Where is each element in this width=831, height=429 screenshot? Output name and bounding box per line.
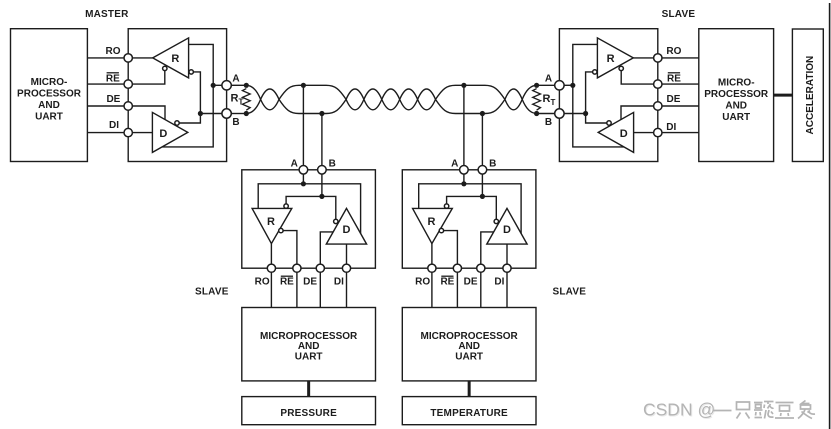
pin A (slave) [555,81,564,90]
wire D output to A (master) [162,85,213,147]
watermark glyph zhi [737,402,750,419]
svg-text:R: R [267,216,275,228]
svg-text:MICROPROCESSOR: MICROPROCESSOR [260,331,358,342]
svg-text:T: T [551,98,556,107]
slave microprocessor label [704,78,769,124]
wire micro to sensor (thick) (slave 1) [307,381,310,397]
bubble R inverting input (slave) [593,70,597,74]
pin RO (slave 2) [428,264,436,272]
node B junction (master) [198,111,203,116]
pin DE (slave 2) [477,264,485,272]
wire DE to D enable (slave 1) [320,232,333,268]
op-amp R receiver (slave 1) [252,208,292,243]
wire stub B (slave 2) [481,114,483,166]
transistor-symbol D (master driver) [152,112,187,152]
wire RO to microprocessor (slave 1) [270,268,272,307]
wire DE to D enable (master) [128,106,165,120]
microprocessor label (slave 1) [260,331,358,363]
node stub A tap (slave 1) [301,83,306,88]
wire DI to microprocessor (slave 1) [346,268,348,307]
svg-text:SLAVE: SLAVE [552,286,586,297]
svg-text:A: A [451,159,458,170]
wire A to pin (master) [213,84,226,86]
svg-text:D: D [159,128,167,140]
node A junction (slave 2) [461,181,466,186]
wire A to D output (slave 1) [303,184,360,234]
wire R input A (master) [189,44,214,85]
node B junction (slave) [583,111,588,116]
bubble D inverting output (slave) [607,121,611,125]
wire master RE [87,83,128,85]
svg-text:R: R [543,93,551,105]
pin B (master) [222,109,231,118]
pin RO (master) [124,54,132,62]
wire micro to acceleration (thick) [774,94,793,97]
microprocessor box (slave 1) [242,308,376,381]
watermark glyph wan [754,401,774,419]
wire B to D inverting output (slave 2) [482,196,496,219]
bubble R inverting input (slave 1) [284,204,288,208]
watermark glyph dou [775,403,794,419]
wire stub A (slave 2) [463,85,465,165]
svg-text:B: B [329,159,336,170]
wire RO to R apex [128,57,153,59]
wire R input A (slave) [573,44,598,85]
wire R output to RO (slave 1) [270,244,272,269]
svg-text:DI: DI [109,120,119,131]
bubble R enable (master) [163,66,167,70]
master microprocessor label [17,77,82,123]
wire DE to D enable (slave) [621,106,658,120]
wire A to R input (slave 2) [419,184,464,209]
slave transceiver box U2 [559,29,657,162]
resistor RT (left) [242,89,250,111]
wire DI to D input (slave) [634,132,658,134]
wire R inverting input to B (slave) [586,72,593,114]
node RT bottom (left) [244,111,249,116]
pin DI (slave 1) [342,264,350,272]
wire pin B to RT (left) [231,113,246,115]
svg-text:SLAVE: SLAVE [195,286,229,297]
bubble R inverting input (master) [189,70,193,74]
svg-text:DI: DI [494,277,504,288]
svg-text:A: A [232,73,239,84]
pin DE (master) [124,102,132,110]
svg-text:PRESSURE: PRESSURE [280,408,337,419]
pin RE (slave 2) [453,264,461,272]
wire A drop (slave 2) [463,174,465,184]
svg-text:UART: UART [35,111,63,122]
svg-text:R: R [171,53,179,65]
svg-text:MICRO-: MICRO- [718,78,755,89]
svg-text:R: R [428,216,436,228]
wire slave RO [658,57,699,59]
wire twisted pair conductor 2 [246,89,536,114]
label RE (slave 1) [280,276,294,288]
wire RE to R enable (master) [128,71,165,85]
pin DE (slave) [654,102,662,110]
svg-text:SLAVE: SLAVE [662,9,696,20]
svg-text:D: D [503,224,511,236]
watermark glyph yi [713,410,732,412]
wire pin A to RT (left) [231,84,246,86]
wire RT to pin B (right) [537,113,560,115]
wire B drop (slave 1) [321,174,323,196]
wire B to R inverting (slave 1) [286,196,322,204]
svg-text:RE: RE [667,74,681,85]
node stub B tap (slave 2) [480,111,485,116]
wire RO to microprocessor (slave 2) [431,268,433,307]
pin A (master) [222,81,231,90]
node A junction (slave 1) [301,181,306,186]
wire slave DI [658,132,699,134]
node stub A tap (slave 2) [461,83,466,88]
svg-text:MICRO-: MICRO- [31,77,68,88]
label RT (left) [231,92,244,106]
svg-text:TEMPERATURE: TEMPERATURE [430,408,508,419]
label slave RE [667,73,681,85]
svg-text:B: B [489,159,496,170]
node B junction (slave 2) [480,194,485,199]
pin A (slave 2) [460,166,469,175]
wire DE to microprocessor (slave 1) [319,268,321,307]
wire RE to R enable (slave 1) [283,231,297,269]
watermark CSDN text [643,400,716,421]
svg-text:A: A [291,159,298,170]
svg-text:RE: RE [106,74,120,85]
wire DI to D input (slave 2) [506,244,508,268]
microprocessor label (slave 2) [421,331,519,363]
wire RE to microprocessor (slave 2) [456,268,458,307]
bubble R enable (slave 2) [439,228,443,232]
wire A to pin (slave) [559,84,572,86]
wire RE to R enable (slave) [621,71,658,85]
svg-text:A: A [545,73,552,84]
pin RE (master) [124,80,132,88]
slave microprocessor box [699,29,774,162]
svg-text:RO: RO [106,46,121,57]
svg-text:RO: RO [255,277,270,288]
svg-text:DE: DE [106,94,120,105]
svg-text:AND: AND [458,341,480,352]
node RT top (left) [244,83,249,88]
screen right border [829,3,831,429]
bubble D inverting output (master) [175,121,179,125]
sensor box PRESSURE [242,397,376,425]
svg-text:ACCELERATION: ACCELERATION [805,56,816,135]
svg-text:MICROPROCESSOR: MICROPROCESSOR [421,331,519,342]
wire stub B (slave 1) [321,114,323,166]
wire DI to D input (slave 1) [346,244,348,268]
master microprocessor box [11,29,88,162]
pin B (slave) [555,109,564,118]
pin RO (slave) [654,54,662,62]
wire B to D inverting output (slave 1) [322,196,336,219]
wire A drop (slave 1) [302,174,304,184]
wire slave RE [658,83,699,85]
node RT top (right) [534,83,539,88]
bubble R enable (slave) [619,66,623,70]
svg-text:RO: RO [415,277,430,288]
wire DE to microprocessor (slave 2) [480,268,482,307]
wire A to R input (slave 1) [258,184,303,209]
wire RO to R apex (slave) [633,57,658,59]
wire B drop (slave 2) [481,174,483,196]
node stub B tap (slave 1) [319,111,324,116]
pin DI (master) [124,128,132,136]
wire micro to sensor (thick) (slave 2) [468,381,471,397]
svg-text:UART: UART [295,352,323,363]
node A junction (slave) [570,83,575,88]
resistor RT (right) [533,89,541,111]
wire stub A (slave 1) [302,85,304,165]
node A junction (master) [211,83,216,88]
svg-text:D: D [343,224,351,236]
wire master DE [87,105,128,107]
svg-text:B: B [232,117,239,128]
svg-text:DE: DE [464,277,478,288]
bubble D inverting output (slave 2) [494,219,498,223]
transceiver box (slave 2) [402,170,536,268]
pin RE (slave) [654,80,662,88]
svg-text:AND: AND [725,101,747,112]
pin B (slave 1) [318,166,327,175]
svg-text:CSDN @: CSDN @ [643,400,715,420]
svg-text:PROCESSOR: PROCESSOR [17,88,82,99]
node B junction (slave 1) [319,194,324,199]
wire D inverting output to B (master) [179,114,200,124]
pin RE (slave 1) [293,264,301,272]
wire RE to R enable (slave 2) [444,231,458,269]
svg-text:DI: DI [666,122,676,133]
transistor-symbol D driver (slave 1) [326,208,366,244]
wire DI to D input (master) [128,132,152,134]
pin RO (slave 1) [267,264,275,272]
svg-text:R: R [607,53,615,65]
sensor box TEMPERATURE [402,397,536,425]
transceiver box (slave 1) [242,170,376,268]
node RT bottom (right) [534,111,539,116]
pin A (slave 1) [299,166,308,175]
pin B (slave 2) [478,166,487,175]
svg-text:AND: AND [298,341,320,352]
svg-text:RE: RE [440,277,454,288]
svg-text:R: R [231,92,239,104]
svg-text:B: B [545,117,552,128]
wire master DI [87,132,128,134]
wire B to pin (master) [200,113,226,115]
wire RT to pin A (right) [537,84,560,86]
svg-text:DE: DE [667,94,681,105]
acceleration sensor box [792,29,823,162]
microprocessor box (slave 2) [402,308,536,381]
watermark glyph xiang [798,401,815,419]
wire B to R inverting (slave 2) [447,196,483,204]
wire B to pin (slave) [559,113,585,115]
pin DI (slave) [654,128,662,136]
pin DI (slave 2) [503,264,511,272]
op-amp R (slave receiver) [597,38,633,78]
svg-text:UART: UART [722,112,750,123]
wire A to D output (slave 2) [464,184,521,234]
label RT (right) [543,93,556,107]
bubble D inverting output (slave 1) [334,219,338,223]
svg-text:RE: RE [280,277,294,288]
pin DE (slave 1) [316,264,324,272]
svg-text:RO: RO [666,46,681,57]
svg-text:MASTER: MASTER [85,9,129,20]
label RE (slave 2) [440,276,454,288]
svg-text:DI: DI [334,277,344,288]
op-amp R receiver (slave 2) [413,208,453,243]
master transceiver box U1 [128,29,226,162]
svg-text:AND: AND [38,100,60,111]
svg-text:PROCESSOR: PROCESSOR [704,89,769,100]
bubble R inverting input (slave 2) [444,204,448,208]
wire twisted pair conductor 1 [246,85,536,110]
wire D output to A (slave) [573,85,624,147]
svg-text:UART: UART [455,352,483,363]
wire master RO [87,57,128,59]
wire R inverting input to B (master) [193,72,200,114]
bubble R enable (slave 1) [279,228,283,232]
svg-text:D: D [620,128,628,140]
wire DE to D enable (slave 2) [481,232,494,268]
label master RE [106,73,120,85]
svg-text:DE: DE [303,277,317,288]
wire D inverting output to B (slave) [586,114,607,124]
wire RE to microprocessor (slave 1) [296,268,298,307]
wire slave DE [658,105,699,107]
transistor-symbol D (slave driver) [598,112,633,152]
wire R output to RO (slave 2) [431,244,433,269]
wire DI to microprocessor (slave 2) [506,268,508,307]
transistor-symbol D driver (slave 2) [487,208,527,244]
op-amp R (master receiver) [153,38,189,78]
